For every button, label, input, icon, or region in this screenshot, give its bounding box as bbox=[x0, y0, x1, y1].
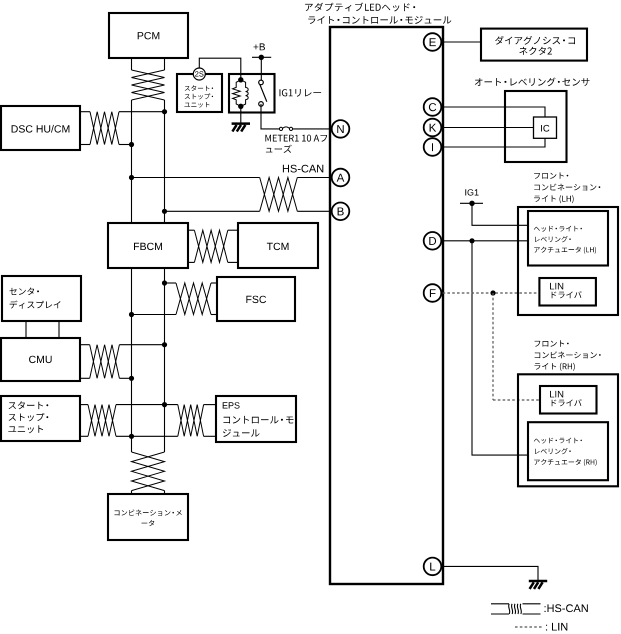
relay switch bottom contact bbox=[259, 102, 264, 107]
box headlight leveling actuator LH bbox=[528, 211, 608, 266]
box front combination light RH bbox=[518, 374, 618, 486]
pin A bbox=[332, 169, 350, 187]
label METER1 fuse line1 bbox=[265, 135, 327, 142]
label start-stop upper line1 bbox=[185, 85, 213, 91]
wire relay coil to ground bbox=[240, 106, 242, 123]
node +B supply bar bbox=[252, 56, 271, 58]
junction A wire on left bus bbox=[129, 175, 134, 180]
ground bottom right bbox=[529, 580, 547, 583]
label +B bbox=[254, 43, 266, 50]
fuse METER1 10A bbox=[279, 127, 282, 130]
wire relay switch to fuse bbox=[261, 104, 279, 129]
junction FSC top on right bus bbox=[162, 280, 167, 285]
box adaptive LED headlight control module bbox=[330, 27, 443, 584]
wire 2S to relay coil bbox=[199, 58, 241, 80]
junction IG1 bbox=[469, 201, 474, 206]
pin D bbox=[424, 232, 442, 250]
twisted pair HS-CAN to module bbox=[260, 178, 298, 212]
pin I bbox=[424, 138, 442, 156]
wire center display to CMU left bbox=[25, 321, 27, 338]
twisted pair EPS module bbox=[178, 405, 204, 437]
junction CMU bottom on left bus bbox=[129, 376, 134, 381]
junction +B bbox=[259, 55, 264, 60]
label start-stop lower line1 bbox=[9, 401, 49, 409]
pin C bbox=[424, 98, 442, 116]
label LIN driver RH line2 bbox=[552, 399, 582, 406]
label front combination light RH line3 bbox=[535, 363, 575, 371]
wire CAN bus left line bbox=[131, 58, 133, 70]
label front combination light LH line2 bbox=[534, 184, 600, 191]
box IC bbox=[534, 117, 557, 138]
wire pin K to IC bbox=[433, 127, 534, 129]
wire pin F LIN dashed bbox=[433, 292, 539, 294]
box combination meter bbox=[108, 494, 188, 540]
pin F bbox=[424, 284, 442, 302]
wire DSC HU/CM bottom lead bbox=[80, 144, 90, 146]
box diagnosis connector 2 bbox=[481, 29, 587, 61]
box auto leveling sensor bbox=[505, 91, 567, 162]
junction EPS top on right bus bbox=[162, 402, 167, 407]
label IG1 relay bbox=[280, 89, 322, 97]
label start-stop lower line3 bbox=[8, 425, 43, 433]
box TCM bbox=[238, 223, 318, 268]
wire pin L to ground bbox=[433, 566, 538, 581]
wire FSC top lead bbox=[165, 282, 177, 284]
label module title line1 bbox=[305, 3, 415, 12]
wire FSC bottom lead bbox=[132, 314, 177, 316]
box FSC bbox=[217, 277, 295, 321]
relay coil top junction bbox=[238, 77, 243, 82]
wire +B to relay switch bbox=[260, 57, 262, 80]
label diagnosis connector line1 bbox=[495, 36, 575, 45]
box IG1 relay bbox=[229, 74, 275, 113]
box LIN driver LH bbox=[539, 278, 596, 306]
coil in relay bbox=[241, 80, 248, 107]
label HS-CAN bbox=[283, 165, 323, 173]
label center display line1 bbox=[9, 288, 39, 296]
legend LIN text bbox=[546, 623, 567, 631]
junction CMU top on right bus bbox=[162, 342, 167, 347]
label center display line2 bbox=[10, 301, 61, 309]
label start-stop upper line2 bbox=[185, 93, 213, 99]
junction FSC bottom on left bus bbox=[129, 312, 134, 317]
label module title line2 bbox=[308, 16, 451, 24]
wire start-stop top lead bbox=[80, 404, 88, 406]
relay switch top contact bbox=[259, 80, 264, 85]
legend LIN dashed bbox=[515, 626, 543, 628]
pin L bbox=[424, 558, 442, 576]
relay coil bottom junction bbox=[238, 104, 243, 109]
label LIN driver LH line2 bbox=[552, 291, 582, 298]
label METER1 fuse line2 bbox=[266, 145, 292, 153]
junction EPS bottom on left bus bbox=[129, 434, 134, 439]
box DSC HU/CM bbox=[1, 106, 80, 150]
box start-stop unit upper bbox=[177, 74, 222, 112]
node 2S bbox=[193, 68, 205, 80]
twisted pair FBCM-TCM bbox=[194, 230, 227, 262]
wire IG1 to LH actuator bbox=[472, 203, 528, 225]
resistor in relay bbox=[233, 80, 241, 107]
box front combination light LH bbox=[518, 207, 618, 315]
twisted pair CMU bbox=[90, 345, 120, 379]
wire pin C to IC bbox=[433, 107, 545, 117]
wire center display to CMU right bbox=[58, 321, 60, 338]
box FBCM bbox=[108, 223, 188, 268]
wire CMU bottom lead bbox=[80, 377, 90, 379]
box EPS control module bbox=[216, 396, 296, 442]
box headlight leveling actuator RH bbox=[528, 422, 608, 480]
wire D branch to RH actuator bbox=[472, 241, 528, 455]
pin N bbox=[332, 120, 350, 138]
label front combination light LH line1 bbox=[534, 172, 568, 178]
wire F branch dashed to RH LIN bbox=[493, 399, 540, 401]
twisted pair DSC HU/CM bbox=[90, 112, 119, 145]
label LIN driver RH line1 bbox=[550, 391, 563, 398]
wire CMU top lead bbox=[80, 344, 90, 346]
label EPS line3 bbox=[223, 429, 260, 437]
box LIN driver RH bbox=[540, 386, 597, 414]
wire pin E to diagnosis connector bbox=[433, 41, 481, 43]
junction F branch bbox=[490, 290, 495, 295]
pin K bbox=[424, 119, 442, 137]
label actuator RH line3 bbox=[534, 459, 596, 466]
label combination meter line2 bbox=[142, 520, 155, 526]
label start-stop upper line3 bbox=[185, 102, 210, 108]
twisted pair above combination meter bbox=[132, 452, 165, 491]
wire start-stop bottom lead bbox=[80, 435, 88, 437]
label IG1 bbox=[465, 189, 478, 195]
junction DSC top on right bus bbox=[162, 109, 167, 114]
relay switch arm bbox=[260, 84, 267, 101]
wire HS-CAN high to pin A bbox=[132, 177, 260, 179]
label front combination light RH line1 bbox=[535, 340, 569, 346]
twisted pair start-stop unit bbox=[88, 405, 116, 437]
label auto leveling sensor bbox=[475, 78, 590, 87]
wire fuse to pin N bbox=[293, 128, 333, 130]
legend twisted pair symbol bbox=[491, 603, 509, 605]
wire pin D to LH actuator bbox=[433, 240, 528, 242]
junction D branch bbox=[469, 238, 474, 243]
box start-stop unit lower bbox=[1, 396, 80, 441]
wire FBCM-TCM bottom lead bbox=[188, 261, 194, 263]
wire EPS top lead bbox=[204, 404, 216, 406]
label actuator LH line2 bbox=[535, 236, 571, 242]
wire FBCM-TCM top lead bbox=[188, 229, 194, 231]
label actuator LH line1 bbox=[534, 226, 582, 232]
pin E bbox=[424, 33, 442, 51]
wire bus to combination meter bbox=[131, 491, 133, 494]
twisted pair below PCM bbox=[132, 70, 165, 100]
label LIN driver LH line1 bbox=[550, 283, 563, 290]
pin B bbox=[332, 203, 350, 221]
wire EPS bottom lead bbox=[204, 435, 216, 437]
junction DSC bottom on left bus bbox=[129, 142, 134, 147]
wire F branch dashed down bbox=[492, 293, 494, 400]
label actuator LH line3 bbox=[534, 247, 596, 254]
box CMU bbox=[1, 338, 80, 381]
wire CAN bus right line bbox=[164, 58, 166, 70]
box center display bbox=[2, 276, 81, 321]
label actuator RH line2 bbox=[535, 448, 571, 454]
label actuator RH line1 bbox=[534, 438, 582, 444]
node IG1 supply bar bbox=[460, 202, 483, 204]
wire DSC HU/CM top lead bbox=[80, 111, 90, 113]
label diagnosis connector line2 bbox=[519, 47, 552, 55]
label start-stop lower line2 bbox=[9, 413, 49, 421]
legend HS-CAN text bbox=[545, 604, 588, 612]
junction B wire on right bus bbox=[162, 209, 167, 214]
box PCM bbox=[109, 13, 188, 58]
label front combination light LH line3 bbox=[534, 195, 574, 203]
label front combination light RH line2 bbox=[535, 351, 601, 358]
wire pin I to IC bbox=[433, 138, 545, 147]
label EPS line2 bbox=[224, 416, 294, 424]
ground below relay bbox=[232, 122, 250, 125]
twisted pair FSC bbox=[176, 283, 211, 315]
label combination meter line1 bbox=[115, 510, 182, 516]
wire HS-CAN low to pin B bbox=[165, 210, 260, 212]
